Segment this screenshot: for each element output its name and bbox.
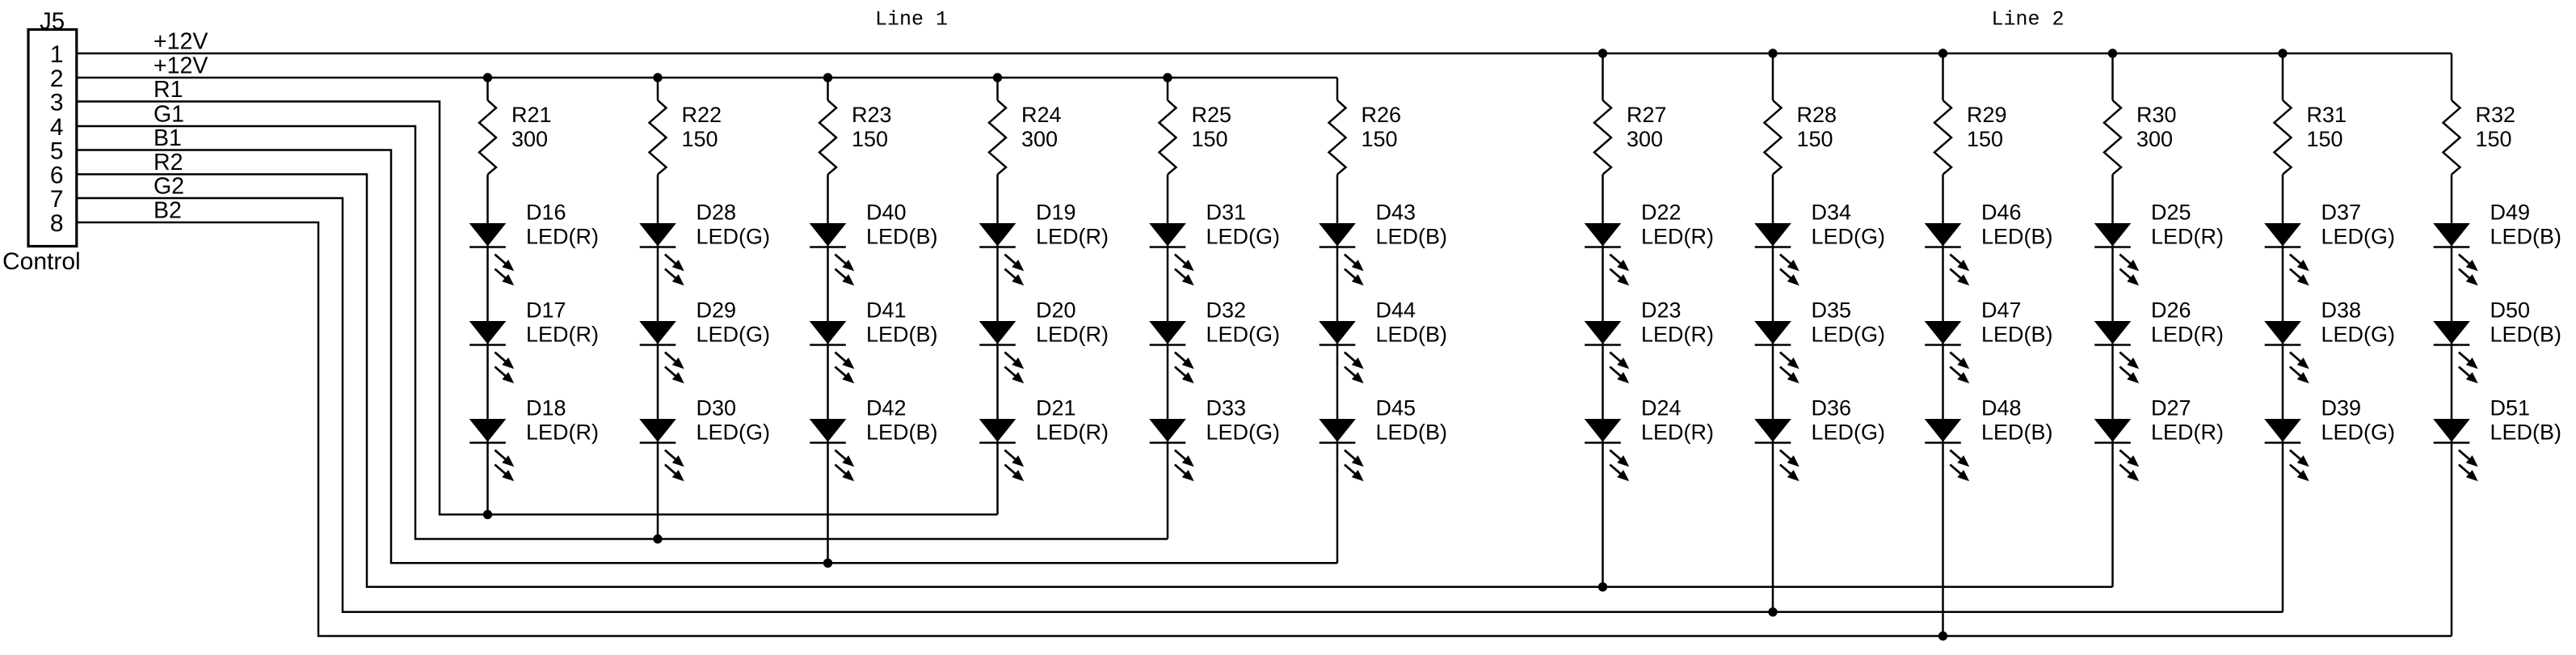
svg-text:R1: R1 bbox=[154, 77, 183, 103]
svg-text:3: 3 bbox=[50, 89, 64, 116]
svg-text:D43: D43 bbox=[1376, 201, 1416, 225]
svg-text:R22: R22 bbox=[682, 103, 722, 127]
svg-text:D27: D27 bbox=[2151, 396, 2191, 420]
svg-text:LED(G): LED(G) bbox=[1206, 323, 1281, 347]
svg-text:LED(G): LED(G) bbox=[1206, 420, 1281, 445]
svg-text:D44: D44 bbox=[1376, 298, 1416, 323]
svg-text:Line 2: Line 2 bbox=[1992, 8, 2065, 32]
svg-text:8: 8 bbox=[50, 210, 64, 237]
svg-text:D16: D16 bbox=[526, 201, 566, 225]
svg-text:D49: D49 bbox=[2490, 201, 2531, 225]
svg-text:D51: D51 bbox=[2490, 396, 2531, 420]
svg-text:LED(R): LED(R) bbox=[1641, 420, 1714, 445]
svg-text:LED(G): LED(G) bbox=[697, 225, 771, 249]
svg-text:LED(R): LED(R) bbox=[2151, 323, 2224, 347]
svg-text:R26: R26 bbox=[1362, 103, 1402, 127]
svg-text:150: 150 bbox=[1967, 127, 2003, 151]
svg-text:D33: D33 bbox=[1206, 396, 1247, 420]
svg-text:D47: D47 bbox=[1981, 298, 2022, 323]
svg-text:LED(R): LED(R) bbox=[1036, 420, 1109, 445]
svg-text:LED(G): LED(G) bbox=[1812, 225, 1886, 249]
svg-text:D41: D41 bbox=[866, 298, 907, 323]
svg-text:D18: D18 bbox=[526, 396, 566, 420]
svg-text:D20: D20 bbox=[1036, 298, 1076, 323]
svg-text:LED(B): LED(B) bbox=[866, 323, 938, 347]
svg-text:D42: D42 bbox=[866, 396, 907, 420]
svg-text:R23: R23 bbox=[852, 103, 892, 127]
svg-text:D48: D48 bbox=[1981, 396, 2022, 420]
svg-text:D24: D24 bbox=[1641, 396, 1682, 420]
svg-text:D50: D50 bbox=[2490, 298, 2531, 323]
svg-text:LED(G): LED(G) bbox=[2321, 225, 2396, 249]
svg-text:150: 150 bbox=[852, 127, 888, 151]
svg-text:Line 1: Line 1 bbox=[875, 8, 948, 32]
svg-text:LED(R): LED(R) bbox=[1641, 225, 1714, 249]
svg-text:D31: D31 bbox=[1206, 201, 1247, 225]
svg-text:LED(R): LED(R) bbox=[1641, 323, 1714, 347]
svg-text:D37: D37 bbox=[2321, 201, 2362, 225]
svg-text:LED(G): LED(G) bbox=[1206, 225, 1281, 249]
svg-text:LED(R): LED(R) bbox=[2151, 420, 2224, 445]
svg-text:300: 300 bbox=[1627, 127, 1663, 151]
svg-text:R31: R31 bbox=[2307, 103, 2347, 127]
svg-text:R21: R21 bbox=[511, 103, 552, 127]
svg-text:LED(B): LED(B) bbox=[1981, 323, 2053, 347]
svg-text:R30: R30 bbox=[2136, 103, 2177, 127]
svg-text:J5: J5 bbox=[40, 8, 65, 35]
svg-text:LED(G): LED(G) bbox=[1812, 420, 1886, 445]
svg-text:LED(B): LED(B) bbox=[1376, 225, 1448, 249]
svg-text:LED(R): LED(R) bbox=[526, 225, 599, 249]
svg-text:6: 6 bbox=[50, 162, 64, 188]
svg-text:D45: D45 bbox=[1376, 396, 1416, 420]
svg-text:D17: D17 bbox=[526, 298, 566, 323]
svg-text:300: 300 bbox=[1021, 127, 1058, 151]
svg-text:LED(G): LED(G) bbox=[697, 420, 771, 445]
svg-text:D21: D21 bbox=[1036, 396, 1076, 420]
svg-text:LED(B): LED(B) bbox=[1376, 420, 1448, 445]
svg-text:D36: D36 bbox=[1812, 396, 1852, 420]
svg-text:D26: D26 bbox=[2151, 298, 2191, 323]
svg-text:1: 1 bbox=[50, 41, 64, 68]
svg-text:LED(R): LED(R) bbox=[1036, 323, 1109, 347]
svg-text:LED(G): LED(G) bbox=[697, 323, 771, 347]
svg-text:LED(G): LED(G) bbox=[1812, 323, 1886, 347]
svg-text:2: 2 bbox=[50, 65, 64, 92]
svg-text:R2: R2 bbox=[154, 150, 183, 175]
svg-text:150: 150 bbox=[1362, 127, 1398, 151]
svg-text:7: 7 bbox=[50, 186, 64, 213]
svg-text:B1: B1 bbox=[154, 125, 182, 151]
svg-text:R24: R24 bbox=[1021, 103, 1062, 127]
svg-text:D46: D46 bbox=[1981, 201, 2022, 225]
svg-text:D35: D35 bbox=[1812, 298, 1852, 323]
svg-text:D34: D34 bbox=[1812, 201, 1852, 225]
svg-text:D19: D19 bbox=[1036, 201, 1076, 225]
svg-text:D25: D25 bbox=[2151, 201, 2191, 225]
svg-text:LED(B): LED(B) bbox=[2490, 420, 2562, 445]
svg-text:LED(G): LED(G) bbox=[2321, 420, 2396, 445]
svg-text:G2: G2 bbox=[154, 174, 184, 200]
svg-text:R25: R25 bbox=[1192, 103, 1232, 127]
svg-text:150: 150 bbox=[2476, 127, 2512, 151]
svg-text:150: 150 bbox=[2307, 127, 2343, 151]
svg-text:R28: R28 bbox=[1797, 103, 1837, 127]
svg-text:300: 300 bbox=[511, 127, 548, 151]
svg-text:G1: G1 bbox=[154, 102, 184, 128]
svg-text:LED(B): LED(B) bbox=[1981, 225, 2053, 249]
svg-text:LED(R): LED(R) bbox=[1036, 225, 1109, 249]
svg-text:LED(R): LED(R) bbox=[526, 323, 599, 347]
svg-text:LED(B): LED(B) bbox=[866, 225, 938, 249]
svg-text:D30: D30 bbox=[697, 396, 737, 420]
svg-text:Control: Control bbox=[2, 248, 81, 275]
svg-text:LED(B): LED(B) bbox=[2490, 323, 2562, 347]
svg-text:LED(B): LED(B) bbox=[2490, 225, 2562, 249]
svg-text:LED(G): LED(G) bbox=[2321, 323, 2396, 347]
svg-text:D29: D29 bbox=[697, 298, 737, 323]
svg-text:D38: D38 bbox=[2321, 298, 2362, 323]
svg-text:150: 150 bbox=[682, 127, 718, 151]
svg-text:D40: D40 bbox=[866, 201, 907, 225]
svg-text:D23: D23 bbox=[1641, 298, 1682, 323]
svg-text:R29: R29 bbox=[1967, 103, 2007, 127]
svg-text:150: 150 bbox=[1797, 127, 1833, 151]
svg-text:R27: R27 bbox=[1627, 103, 1667, 127]
svg-text:+12V: +12V bbox=[154, 29, 208, 55]
svg-text:D22: D22 bbox=[1641, 201, 1682, 225]
svg-text:300: 300 bbox=[2136, 127, 2173, 151]
svg-text:LED(B): LED(B) bbox=[1376, 323, 1448, 347]
svg-text:D28: D28 bbox=[697, 201, 737, 225]
svg-text:R32: R32 bbox=[2476, 103, 2516, 127]
svg-text:LED(R): LED(R) bbox=[2151, 225, 2224, 249]
svg-text:LED(B): LED(B) bbox=[1981, 420, 2053, 445]
svg-text:D39: D39 bbox=[2321, 396, 2362, 420]
svg-text:+12V: +12V bbox=[154, 53, 208, 79]
svg-text:LED(R): LED(R) bbox=[526, 420, 599, 445]
svg-text:5: 5 bbox=[50, 137, 64, 164]
svg-text:150: 150 bbox=[1192, 127, 1228, 151]
svg-text:4: 4 bbox=[50, 114, 64, 141]
svg-text:D32: D32 bbox=[1206, 298, 1247, 323]
svg-text:B2: B2 bbox=[154, 198, 182, 224]
svg-text:LED(B): LED(B) bbox=[866, 420, 938, 445]
